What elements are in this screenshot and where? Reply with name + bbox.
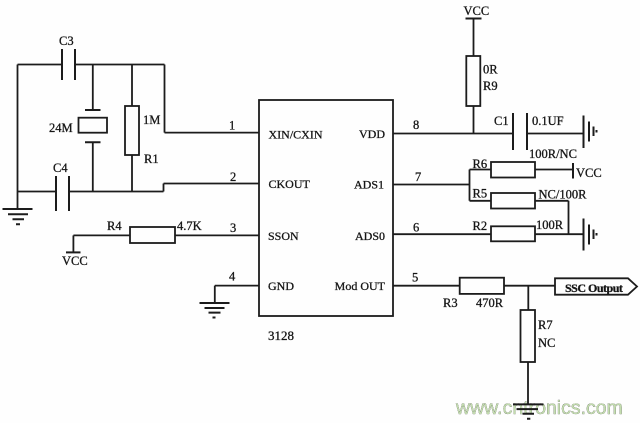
resistor R9 0R — [466, 56, 498, 134]
svg-text:SSC Output: SSC Output — [565, 281, 623, 295]
resistor R5 — [470, 187, 588, 235]
svg-text:4: 4 — [229, 270, 236, 284]
capacitor C3 — [59, 34, 75, 80]
svg-text:ADS0: ADS0 — [355, 229, 385, 243]
svg-text:R5: R5 — [473, 187, 488, 201]
svg-text:R4: R4 — [107, 219, 122, 233]
wire pin5 net — [393, 285, 460, 287]
ground (left rail) — [3, 209, 33, 224]
power VCC (left) — [62, 235, 88, 268]
svg-text:NC: NC — [538, 336, 555, 350]
svg-text:5: 5 — [412, 271, 418, 285]
node junction R3/R7 — [527, 286, 529, 310]
svg-text:C1: C1 — [494, 114, 509, 128]
svg-text:470R: 470R — [476, 296, 504, 310]
svg-text:100R: 100R — [536, 218, 564, 232]
ground (R7) — [513, 404, 544, 418]
wire pin7 net — [393, 170, 470, 201]
ground (C1) — [584, 116, 597, 149]
svg-text:8: 8 — [413, 118, 419, 132]
wire pin3 net — [73, 234, 259, 236]
svg-text:Mod OUT: Mod OUT — [335, 279, 386, 293]
op-amp U1 box 3128 — [259, 100, 393, 343]
resistor R3 470R — [443, 278, 555, 310]
svg-text:1: 1 — [229, 119, 235, 133]
svg-text:C4: C4 — [53, 161, 68, 175]
svg-text:3: 3 — [230, 221, 236, 235]
svg-text:XIN/CXIN: XIN/CXIN — [269, 128, 323, 142]
wire pin2 net — [164, 184, 260, 192]
svg-text:4.7K: 4.7K — [177, 219, 202, 233]
power VCC (right) — [573, 163, 602, 180]
ground (R2) — [584, 219, 597, 251]
svg-text:R6: R6 — [473, 157, 488, 171]
svg-text:0.1UF: 0.1UF — [532, 114, 564, 128]
crystal Y1 24M — [49, 65, 107, 192]
svg-text:R9: R9 — [483, 79, 498, 93]
svg-text:R7: R7 — [538, 318, 553, 332]
capacitor C1 0.1UF — [494, 113, 564, 150]
svg-text:R1: R1 — [144, 152, 159, 166]
wire pin6 net — [393, 233, 491, 235]
wire left rail — [17, 65, 19, 210]
svg-text:3128: 3128 — [268, 328, 294, 343]
svg-text:7: 7 — [415, 170, 421, 184]
wire pin8 net — [393, 133, 513, 135]
wire C1 to ground — [527, 133, 584, 135]
wire bottom rail — [18, 191, 164, 193]
power VCC (top) — [464, 4, 490, 56]
wire pin4 net — [215, 286, 259, 303]
connector SSC Output — [555, 278, 637, 295]
svg-text:1M: 1M — [143, 113, 160, 127]
svg-text:www.cntronics.com: www.cntronics.com — [455, 397, 623, 419]
resistor R6 — [470, 157, 574, 178]
capacitor C4 — [53, 161, 69, 211]
svg-text:0R: 0R — [483, 63, 498, 77]
svg-text:100R/NC: 100R/NC — [529, 147, 577, 161]
resistor R7 NC — [521, 310, 556, 404]
resistor R1 1M — [125, 65, 160, 192]
svg-text:VCC: VCC — [62, 254, 88, 268]
svg-text:NC/100R: NC/100R — [539, 188, 588, 202]
svg-text:CKOUT: CKOUT — [269, 177, 311, 191]
ground (pin4) — [200, 303, 230, 318]
svg-text:GND: GND — [268, 279, 294, 293]
svg-text:VCC: VCC — [576, 166, 602, 180]
wire top rail — [18, 64, 165, 66]
svg-text:R3: R3 — [443, 296, 458, 310]
svg-text:SSON: SSON — [268, 229, 299, 243]
svg-text:C3: C3 — [59, 34, 74, 48]
svg-text:2: 2 — [230, 170, 236, 184]
svg-text:6: 6 — [413, 221, 419, 235]
resistor R4 4.7K — [107, 219, 202, 243]
svg-text:ADS1: ADS1 — [354, 178, 384, 192]
svg-text:VDD: VDD — [359, 127, 385, 141]
resistor R2 100R — [473, 218, 584, 241]
svg-text:24M: 24M — [49, 121, 73, 135]
svg-text:VCC: VCC — [464, 4, 490, 18]
wire pin1 net — [165, 65, 260, 133]
svg-text:R2: R2 — [473, 219, 488, 233]
